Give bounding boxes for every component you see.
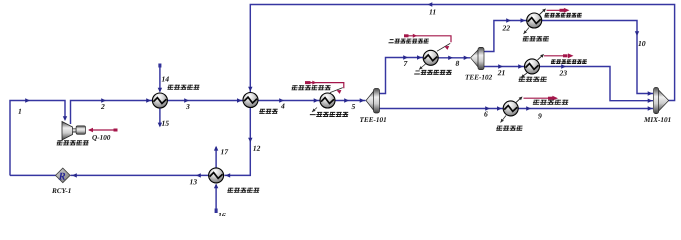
heater1 label	[309, 112, 348, 117]
wire stream 11 mixer outlet loop to recuperator hot inlet	[248, 2, 674, 100]
node label 17	[221, 149, 229, 154]
heat exchanger precooler	[209, 168, 224, 183]
heater1 leader tick	[312, 108, 317, 113]
energy label Q-100	[92, 135, 110, 141]
heat exchanger lower storage tank	[525, 59, 540, 74]
energy label heater1 power	[291, 85, 331, 90]
splitter TEE-101	[366, 89, 380, 114]
node label 10	[638, 41, 645, 46]
node label 21	[498, 70, 505, 75]
energy stream heater2 power	[404, 34, 451, 51]
wire stream 1 recycle to compressor inlet	[10, 98, 67, 175]
aftercooler label	[167, 85, 200, 90]
recycle RCY-1	[56, 168, 71, 183]
wire stream 9 load exchanger to mixer	[518, 106, 653, 110]
wire recycle outlet	[10, 174, 56, 176]
splitter label TEE-102	[466, 75, 493, 80]
node label 11	[429, 9, 435, 14]
wire stream 10 upper tank to mixer	[542, 21, 653, 96]
node label 22	[502, 25, 510, 30]
node label 13	[190, 179, 197, 184]
wire stream 22 TEE-102 top branch to upper tank	[484, 18, 527, 51]
heat exchanger upper storage tank	[527, 13, 542, 28]
wire stream 15 aftercooler utility outlet	[158, 108, 162, 127]
recycle label RCY-1	[52, 188, 71, 193]
heat exchanger load exchanger	[503, 101, 518, 116]
node label 14	[162, 76, 169, 81]
compressor label	[56, 140, 89, 145]
wire stream 7 TEE-101 top branch to heater2	[380, 55, 424, 93]
heater2 label	[414, 70, 452, 75]
wire stream 8 heater2 to TEE-102	[438, 56, 470, 60]
heater2 leader tick	[419, 64, 426, 70]
node label 1	[18, 109, 21, 114]
lower tank label	[518, 77, 547, 82]
energy label upper tank heat load	[544, 13, 582, 17]
energy stream lower tank heat load	[538, 53, 574, 60]
load exchanger leader tick	[501, 116, 507, 123]
energy label vacuum pump load	[533, 100, 569, 105]
precooler label	[227, 188, 260, 193]
energy stream heater1 power	[305, 81, 344, 94]
wire stream 23 lower tank to mixer	[540, 64, 654, 103]
wire stream 2 compressor outlet to aftercooler	[71, 98, 153, 124]
splitter label TEE-101	[360, 117, 386, 122]
wire stream 12 recuperator hot outlet to precooler	[224, 108, 252, 178]
wire stream 4 recuperator to heater1	[258, 98, 320, 102]
wire stream 5 heater1 to TEE-101	[335, 98, 366, 102]
splitter TEE-102	[471, 47, 485, 69]
upper tank label	[522, 36, 549, 41]
energy label heater2 power	[388, 39, 429, 44]
compressor K-100 recycle compressor	[62, 122, 86, 141]
mixer label MIX-101	[644, 117, 671, 122]
wire stream 21 TEE-102 bottom branch to lower tank	[484, 64, 525, 68]
node label 15	[162, 121, 169, 126]
node label 5	[352, 104, 356, 109]
lower tank leader tick	[521, 73, 527, 78]
wire stream 6 TEE-101 bottom branch to load exchanger	[380, 106, 504, 110]
wire stream 17 precooler utility outlet	[214, 146, 218, 168]
energy stream Q-100 into compressor	[88, 128, 118, 133]
heater2 second-stage electric heater	[423, 50, 438, 65]
node label 7	[404, 61, 408, 66]
upper tank leader tick	[524, 28, 530, 35]
node label 6	[484, 111, 488, 116]
node label 8	[456, 61, 460, 66]
node label 9	[538, 113, 542, 118]
node label 23	[559, 70, 566, 75]
node label 3	[186, 104, 190, 109]
load exchanger label	[496, 126, 523, 131]
heat exchanger aftercooler	[152, 93, 167, 108]
energy label lower tank heat load	[551, 59, 588, 63]
energy stream vacuum pump load	[516, 96, 558, 103]
wire stream 3 aftercooler to recuperator	[167, 98, 243, 102]
mixer MIX-101	[654, 88, 669, 114]
node label 2	[101, 104, 105, 109]
node label 4	[281, 104, 285, 109]
heater1 first-stage electric heater	[320, 93, 335, 108]
node label 16	[218, 213, 225, 218]
node label 12	[253, 146, 260, 151]
wire stream 16 precooler utility inlet	[214, 184, 218, 214]
wire stream 14 aftercooler utility inlet	[158, 64, 162, 93]
heat exchanger recuperator	[243, 93, 258, 108]
energy stream upper tank heat load	[540, 8, 570, 15]
recuperator label	[259, 109, 278, 114]
wire stream 13 precooler to recycle RCY-1	[71, 173, 209, 177]
